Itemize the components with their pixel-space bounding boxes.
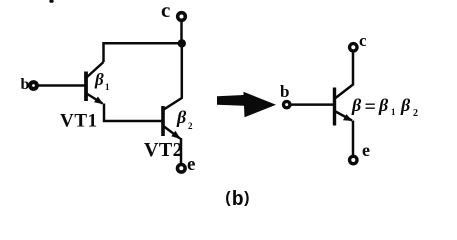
svg-text:β: β (400, 95, 411, 115)
svg-text:2: 2 (188, 121, 193, 131)
transistor VT2 base bar (161, 106, 165, 136)
transistor VT1 collector stroke (87, 62, 104, 78)
wire c terminal down to node (180, 22, 183, 45)
svg-text:): ) (242, 190, 252, 208)
svg-text:c: c (359, 31, 367, 50)
equivalence arrow (217, 92, 276, 118)
wire VT1 collector up to top rail (104, 43, 183, 62)
wire b to VT1 base (38, 84, 86, 87)
equivalent transistor collector stroke (336, 53, 354, 99)
wire emitter to terminal e (right) (352, 121, 355, 156)
transistor VT2 emitter stroke (164, 127, 180, 139)
terminal e pad (right) (350, 156, 357, 163)
node junction dot (178, 39, 186, 47)
svg-text:=: = (365, 96, 376, 118)
transistor VT1 base bar (84, 72, 88, 102)
svg-text:1: 1 (391, 107, 396, 117)
svg-text:VT2: VT2 (144, 139, 183, 161)
wire VT1 emitter to VT2 base (104, 104, 162, 122)
transistor VT2 emitter arrowhead (171, 131, 180, 139)
equivalent transistor emitter arrowhead (343, 114, 353, 121)
stray scan speck (49, 0, 53, 3)
wire VT2 collector (164, 43, 182, 109)
terminal c pad (right) (350, 44, 357, 51)
svg-text:β: β (176, 107, 187, 127)
svg-text:e: e (187, 154, 195, 175)
svg-text:e: e (362, 140, 370, 160)
terminal b pad (left) (30, 82, 37, 89)
svg-text:b: b (21, 76, 30, 93)
svg-text:1: 1 (105, 82, 110, 92)
svg-text:c: c (161, 0, 170, 22)
wire VT2 emitter to terminal e (180, 138, 183, 164)
svg-text:β: β (351, 95, 362, 115)
svg-text:VT1: VT1 (60, 111, 98, 132)
svg-text:b: b (280, 82, 289, 101)
terminal e pad (left) (178, 165, 186, 173)
transistor VT1 emitter stroke (87, 94, 103, 104)
equivalent transistor base bar (333, 88, 336, 126)
terminal b pad (right) (284, 101, 290, 107)
equivalent transistor emitter stroke (336, 112, 353, 121)
svg-text:β: β (378, 95, 389, 115)
terminal c pad (left) (178, 13, 186, 21)
wire b to equivalent transistor base (291, 103, 334, 106)
transistor VT1 emitter arrowhead (94, 97, 103, 105)
svg-text:2: 2 (413, 108, 418, 119)
svg-text:β: β (94, 70, 104, 89)
